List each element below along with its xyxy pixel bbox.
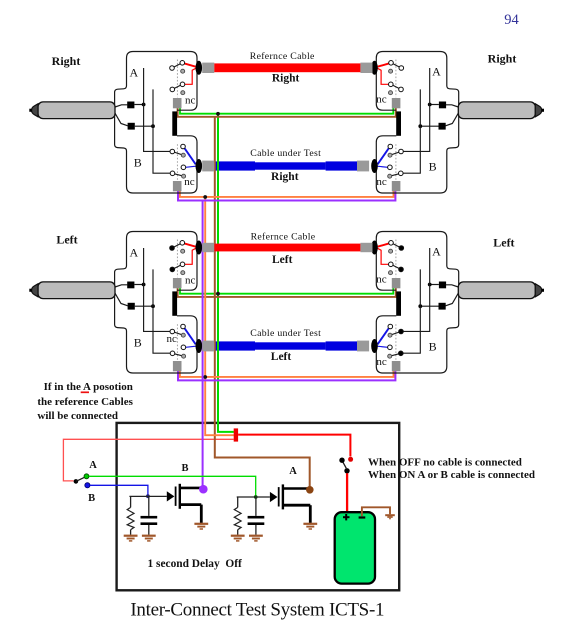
svg-text:Left: Left — [272, 254, 293, 266]
svg-text:1 second Delay Off: 1 second Delay Off — [148, 558, 242, 570]
svg-text:Right: Right — [271, 171, 299, 183]
svg-text:When OFF no cable is connected: When OFF no cable is connected — [368, 457, 522, 469]
svg-text:nc: nc — [376, 176, 387, 188]
svg-text:nc: nc — [184, 176, 195, 188]
svg-text:B: B — [429, 159, 437, 173]
svg-text:When ON A or B cable is connec: When ON A or B cable is connected — [368, 469, 535, 481]
svg-text:will be connected: will be connected — [37, 410, 118, 422]
svg-text:Cable under Test: Cable under Test — [250, 148, 321, 159]
svg-text:94: 94 — [504, 12, 519, 28]
svg-text:nc: nc — [167, 333, 178, 345]
svg-text:B: B — [134, 156, 142, 170]
svg-text:B: B — [429, 339, 437, 353]
svg-text:Left: Left — [271, 351, 292, 363]
svg-text:Left: Left — [493, 235, 514, 249]
svg-text:If in the A posotion: If in the A posotion — [44, 381, 133, 393]
svg-text:Right: Right — [272, 73, 300, 85]
svg-text:Cable under Test: Cable under Test — [250, 328, 321, 339]
svg-text:Right: Right — [52, 54, 81, 68]
svg-text:A: A — [89, 460, 97, 471]
svg-text:nc: nc — [185, 94, 196, 106]
svg-text:B: B — [88, 493, 95, 504]
svg-text:A: A — [289, 466, 297, 477]
svg-text:nc: nc — [376, 94, 387, 106]
svg-text:Refernce Cable: Refernce Cable — [250, 51, 315, 62]
svg-text:A: A — [432, 245, 441, 259]
svg-text:Left: Left — [56, 232, 77, 246]
svg-text:Refernce Cable: Refernce Cable — [251, 231, 316, 242]
svg-text:A: A — [129, 65, 138, 79]
svg-text:Inter-Connect Test System ICTS: Inter-Connect Test System ICTS-1 — [130, 600, 384, 621]
svg-text:A: A — [129, 245, 138, 259]
svg-text:nc: nc — [376, 274, 387, 286]
svg-text:A: A — [432, 65, 441, 79]
svg-text:B: B — [134, 336, 142, 350]
svg-text:nc: nc — [376, 356, 387, 368]
svg-text:nc: nc — [185, 274, 196, 286]
svg-text:B: B — [181, 463, 188, 474]
svg-text:Right: Right — [488, 52, 517, 66]
svg-text:the reference Cables: the reference Cables — [37, 396, 133, 408]
